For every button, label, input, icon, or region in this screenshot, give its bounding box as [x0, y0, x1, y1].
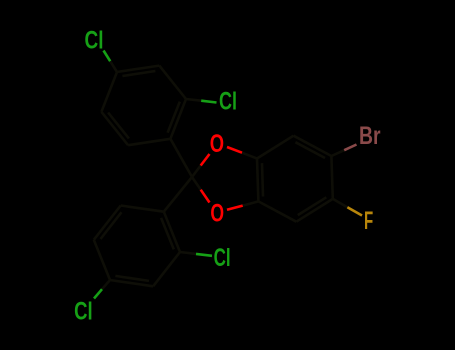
svg-text:Cl: Cl [214, 244, 231, 272]
bottom ring inner double bonds [161, 218, 174, 250]
bottom dichlorophenyl ring C1''-C6'' [164, 212, 180, 252]
svg-text:Cl: Cl [74, 298, 93, 326]
right ring inner double bonds [295, 142, 325, 158]
svg-text:Cl: Cl [85, 26, 104, 54]
colored half bonds [94, 51, 362, 299]
carbon skeleton bonds (very dark) [94, 61, 348, 289]
svg-text:Cl: Cl [219, 87, 237, 115]
svg-text:Br: Br [359, 122, 381, 150]
carbon halves of hetero bonds [110, 61, 117, 72]
atom labels [74, 26, 381, 325]
top ring inner double bonds [168, 102, 180, 133]
right benzene ring of benzodioxole [257, 136, 294, 159]
svg-text:O: O [210, 200, 224, 228]
spiro carbon C2 to ipso carbons [170, 139, 192, 177]
svg-text:O: O [210, 130, 224, 158]
svg-text:F: F [364, 207, 373, 235]
top dichlorophenyl ring C1'-C6' [170, 99, 186, 139]
